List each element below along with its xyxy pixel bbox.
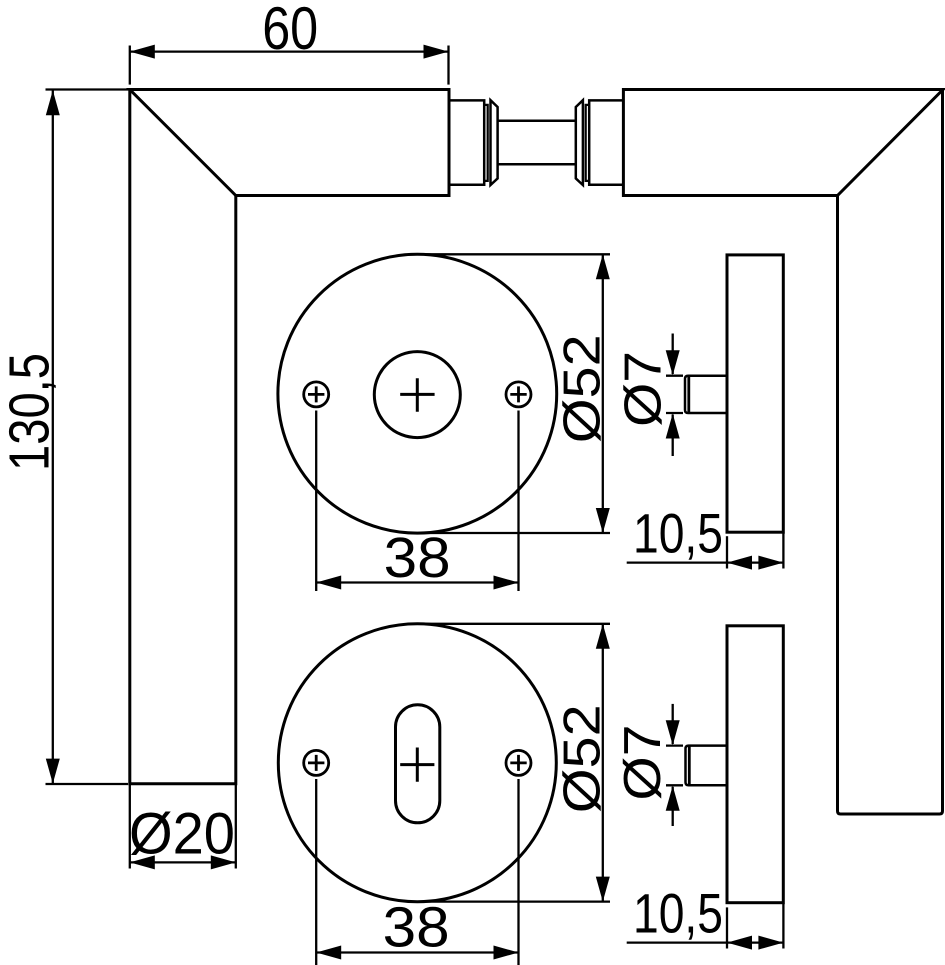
svg-text:130,5: 130,5 (0, 353, 61, 471)
top right screw cross (510, 386, 526, 402)
svg-text:Ø7: Ø7 (614, 725, 672, 801)
bottom rosette center cross (400, 748, 434, 782)
svg-text:38: 38 (384, 526, 451, 590)
bottom left screw hole (304, 750, 329, 775)
dimension O7 bottom: lower arrowhead (666, 786, 680, 811)
bottom left screw cross (308, 755, 324, 771)
dimension O20: extension and dimension lines (130, 784, 236, 869)
bottom side-view rosette disc (686, 626, 784, 903)
top left screw hole (304, 382, 329, 407)
dimension 38 top: right arrowhead (494, 576, 519, 590)
spindle (498, 121, 576, 165)
dimension O7 top: lower arrowhead (666, 414, 680, 439)
bottom right screw hole (506, 750, 531, 775)
dimension O52 bottom: top arrowhead (596, 624, 610, 649)
svg-text:10,5: 10,5 (633, 882, 723, 945)
right collar ring (586, 105, 590, 181)
svg-text:Ø20: Ø20 (129, 801, 235, 866)
bottom rosette face circle (278, 624, 556, 902)
svg-text:Ø52: Ø52 (554, 334, 612, 443)
dimension 10,5 bottom: extension and dimension lines (627, 903, 784, 949)
dimension 38 top: left arrowhead (316, 576, 341, 590)
left collar ring (484, 105, 488, 181)
right lever grip tube (838, 90, 943, 815)
top rosette spindle hole (374, 352, 460, 438)
dimension 10,5 top: extension and dimension lines (627, 532, 784, 568)
right handle neck (589, 100, 623, 184)
left lever grip tube (130, 90, 236, 784)
dimension 60: right arrowhead (424, 45, 449, 59)
dimension 130,5: bottom arrowhead (46, 759, 60, 784)
svg-text:60: 60 (262, 0, 318, 62)
svg-text:10,5: 10,5 (633, 502, 723, 565)
top side-view rosette disc (685, 255, 783, 532)
dimension 10,5 top: left arrowhead (727, 556, 752, 570)
dimension 130,5: extension and dimension lines (46, 90, 130, 785)
dimension O7 top: extension and dimension lines (666, 334, 683, 457)
dimension 10,5 top: right arrowhead (758, 556, 783, 570)
left lever handle body (130, 90, 449, 196)
dimension O52 top: bottom arrowhead (596, 508, 610, 533)
top rosette center cross (400, 378, 434, 411)
right collar flange (576, 100, 583, 185)
top right screw hole (506, 382, 531, 407)
dimension O52 bottom: bottom arrowhead (596, 877, 610, 902)
dimension 38 bottom: right arrowhead (494, 946, 519, 960)
left handle neck (449, 100, 484, 184)
bottom side-view fixing pin (686, 746, 728, 786)
dimension O20: right arrowhead (211, 855, 236, 869)
dimension O7 bottom: upper arrowhead (666, 720, 680, 745)
dimension 38 bottom: left arrowhead (316, 946, 341, 960)
bottom side-view pin cap line (688, 746, 691, 784)
top side-view fixing pin (685, 376, 727, 413)
top side-view pin cap line (687, 377, 690, 413)
dimension 38 top: extension and dimension lines (316, 411, 518, 592)
right lever handle body (623, 90, 943, 196)
svg-text:Ø52: Ø52 (554, 704, 612, 813)
dimension 130,5: top arrowhead (46, 90, 60, 115)
dimension O7 bottom: extension and dimension lines (666, 704, 683, 826)
dimension O52 top: extension and dimension lines (410, 254, 610, 533)
keyhole slot (396, 705, 440, 823)
top rosette group (278, 254, 557, 533)
dimension O20: left arrowhead (130, 855, 155, 869)
dimension O52 top: top arrowhead (596, 254, 610, 279)
dimension 10,5 bottom: right arrowhead (758, 936, 783, 950)
svg-text:38: 38 (383, 895, 450, 959)
bottom rosette group (278, 624, 556, 902)
left collar flange (491, 100, 498, 185)
top left screw cross (308, 386, 324, 402)
svg-text:Ø7: Ø7 (615, 351, 673, 427)
dimension 38 bottom: extension and dimension lines (316, 779, 518, 965)
dimension 60: left arrowhead (130, 45, 155, 59)
dimension O52 bottom: extension and dimension lines (410, 624, 610, 902)
dimension 10,5 bottom: left arrowhead (727, 936, 752, 950)
bottom right screw cross (510, 755, 526, 771)
dimension 60: extension and dimension lines (130, 46, 449, 85)
top rosette face circle (278, 254, 557, 533)
dimension O7 top: upper arrowhead (666, 350, 680, 375)
